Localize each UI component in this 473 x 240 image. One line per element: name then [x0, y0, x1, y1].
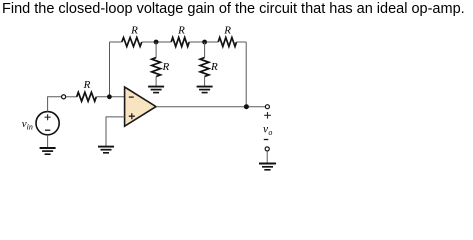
op-amp U1 [125, 87, 156, 126]
resistor R4 (left shunt R) [152, 58, 161, 77]
node B junction dot [202, 40, 207, 45]
source plus sign [45, 114, 51, 120]
ground (left shunt) [148, 87, 164, 93]
wire shunt 1 upper stem [155, 42, 157, 58]
wire terminal to Rin [66, 96, 77, 98]
wire shunt 2 lower stem [204, 77, 206, 87]
op-amp inverting mark [129, 96, 134, 98]
wire between R2 and R3 [189, 41, 218, 43]
resistor R2 (top-middle series R) [171, 38, 189, 47]
wire top rail left segment [110, 41, 122, 43]
wire lower terminal stem [266, 151, 268, 163]
wire left vertical (feedback rail to inverting input) [109, 42, 111, 97]
op-amp non-inverting mark [129, 113, 135, 119]
wire shunt 2 upper stem [204, 42, 206, 58]
wire top rail right segment [237, 41, 247, 43]
wire op-amp output line [156, 106, 265, 108]
resistor R5 (right shunt R) [200, 58, 209, 77]
resistor R1 (top-left series R) [122, 38, 142, 47]
wire between R1 and R2 [142, 41, 171, 43]
ground (non-inverting input) [98, 147, 114, 153]
svg-text:R: R [223, 25, 231, 37]
resistor R3 (top-right series R) [218, 38, 236, 47]
output plus sign [264, 112, 271, 119]
node C junction dot (inverting input node) [107, 94, 112, 99]
ground (output) [259, 164, 276, 170]
node D junction dot (output/feedback) [244, 104, 249, 109]
output minus sign [264, 139, 269, 141]
node A junction dot [154, 40, 159, 45]
svg-text:in: in [27, 122, 33, 131]
svg-text:R: R [130, 25, 138, 37]
svg-text:o: o [268, 128, 272, 137]
wire non-inverting input to ground [106, 117, 125, 146]
output terminal upper (open circle) [265, 105, 269, 109]
input terminal (open circle) [62, 95, 66, 99]
ground (right shunt) [197, 87, 213, 93]
ground (source) [40, 148, 56, 154]
svg-text:R: R [210, 61, 218, 73]
svg-text:R: R [83, 79, 91, 91]
resistor Rin (input R) [77, 92, 97, 101]
source minus sign [45, 129, 50, 131]
voltage source Vin [36, 112, 59, 135]
wire right vertical (feedback rail to output) [245, 42, 247, 107]
wire shunt 1 lower stem [155, 77, 157, 87]
wire source bottom stem [47, 135, 49, 148]
output terminal lower (open circle) [265, 147, 269, 151]
svg-text:R: R [177, 25, 185, 37]
wire Rin to inverting node [96, 96, 124, 98]
wire source top stem [48, 97, 62, 112]
svg-text:R: R [162, 61, 170, 73]
